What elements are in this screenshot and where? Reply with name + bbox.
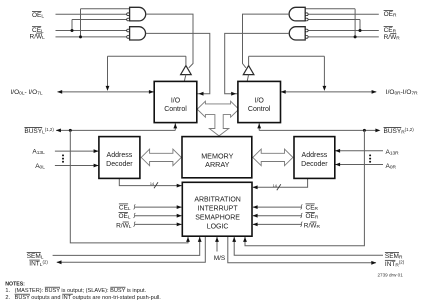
svg-text:ARBITRATION: ARBITRATION <box>194 197 241 204</box>
wire SEM_R <box>234 237 383 256</box>
address decoder left box U3 <box>99 137 140 179</box>
wire A0R <box>335 164 383 166</box>
wire OE_R to gate G3 <box>308 13 379 15</box>
svg-text:Decoder: Decoder <box>301 161 328 168</box>
wire I/O right data bus <box>281 91 376 93</box>
buffer left input from I/O control top <box>184 75 186 82</box>
bus width slash 14 right <box>277 184 281 190</box>
junction R/W_L <box>79 35 82 38</box>
svg-text:MEMORY: MEMORY <box>201 152 233 161</box>
svg-text:Address: Address <box>302 152 328 159</box>
wire G2 output to I/O control right side <box>146 33 210 93</box>
wire I/O left data bus <box>58 91 154 93</box>
wire A0L <box>55 165 98 167</box>
wire R/W_L to gate G2 and branch up to G1 <box>56 36 127 38</box>
svg-text:I/O: I/O <box>255 98 265 105</box>
svg-text:14: 14 <box>273 184 277 188</box>
wire INT_L output <box>57 236 206 262</box>
bus arrow right address decoder to memory array <box>253 149 293 166</box>
wire SEM_L <box>53 237 200 256</box>
AND gate G3 (right read enable) <box>289 7 305 21</box>
AND gate G2 (left write enable) <box>130 27 146 40</box>
svg-text:I/O: I/O <box>171 98 181 105</box>
tri-state buffer left (output driver) <box>181 66 192 75</box>
svg-text:2739 drw 01: 2739 drw 01 <box>378 272 404 277</box>
wire left decoder to arbitration 14 bus <box>119 178 181 185</box>
wire A13R <box>335 150 383 152</box>
wire OE_L to arbitration <box>135 215 182 217</box>
svg-text:14: 14 <box>150 182 154 186</box>
junction BUSY_R <box>363 129 366 132</box>
junction BUSY_L <box>69 129 72 132</box>
wire R/W_L to arbitration <box>135 223 182 225</box>
svg-text:LOGIC: LOGIC <box>207 224 229 231</box>
tri-state buffer right (output driver) <box>243 66 254 75</box>
svg-text:Decoder: Decoder <box>106 161 133 168</box>
memory array box U5 <box>182 137 252 178</box>
ellipsis left address <box>62 154 64 156</box>
wire R/W_R to arbitration <box>253 223 302 225</box>
wire M/S input <box>216 237 218 252</box>
wire BUSY_L feedback to arbitration <box>70 130 188 243</box>
svg-text:INTERRUPT: INTERRUPT <box>198 206 239 213</box>
ellipsis right address <box>369 154 371 156</box>
wire CE_R to arbitration <box>253 206 302 208</box>
wire CE_R to gate G4 and branch up to G3 <box>308 30 379 32</box>
wire OE_L to gate G1 <box>56 13 127 15</box>
AND gate G4 (right write enable) <box>289 27 305 40</box>
wire A13L <box>55 150 98 152</box>
wire CE_L to gate G2 and branch up to G1 <box>56 30 127 32</box>
bus arrow I/O controls to memory array (three-headed) <box>197 101 239 136</box>
svg-text:(MASTER): BUSY is output; (SLA: (MASTER): BUSY is output; (SLAVE): BUSY … <box>15 288 147 294</box>
wire right decoder to arbitration 14 bus <box>253 178 308 187</box>
wire BUSY_R <box>259 129 376 131</box>
wire G1 output to buffer enable <box>146 14 193 68</box>
wire OE_R to arbitration <box>253 215 302 217</box>
wire INT_R output <box>228 236 376 262</box>
wire R/W_R to gate G4 and branch up to G3 <box>308 36 379 38</box>
svg-text:Control: Control <box>164 106 187 113</box>
svg-text:Address: Address <box>107 152 133 159</box>
svg-text:1.: 1. <box>5 288 10 294</box>
arbitration interrupt semaphore logic box U6 <box>182 182 252 236</box>
AND gate G1 (left read enable) <box>130 7 146 21</box>
buffer right input from I/O control top <box>247 75 248 82</box>
wire CE_L to arbitration <box>135 206 182 208</box>
svg-text:SEMAPHORE: SEMAPHORE <box>195 215 240 222</box>
svg-text:Control: Control <box>248 106 271 113</box>
wire G3 output to right buffer enable <box>243 14 290 68</box>
bus arrow left address decoder to memory array <box>141 149 181 166</box>
wire BUSY_L <box>56 129 175 131</box>
wire BUSY_R feedback to arbitration <box>245 130 364 245</box>
svg-text:2.: 2. <box>5 295 10 301</box>
junction CE_R <box>359 29 362 32</box>
svg-text:NOTES:: NOTES: <box>5 282 25 288</box>
bus width slash 14 left <box>154 182 158 188</box>
svg-text:BUSY outputs and INT outputs a: BUSY outputs and INT outputs are non-tri… <box>15 295 162 301</box>
svg-text:M/S: M/S <box>214 255 226 262</box>
wire G4 output to right I/O control left side <box>225 33 289 93</box>
address decoder right box U4 <box>294 137 335 179</box>
junction R/W_R <box>354 35 357 38</box>
I/O control left box U1 <box>154 81 197 122</box>
junction CE_L <box>71 29 74 32</box>
I/O control right box U2 <box>238 81 281 122</box>
svg-text:ARRAY: ARRAY <box>205 160 229 169</box>
